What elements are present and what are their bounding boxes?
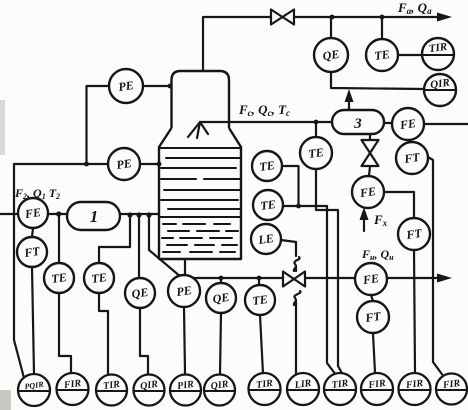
svg-text:Fc, Qc, Tc: Fc, Qc, Tc	[238, 102, 290, 118]
svg-text:TE: TE	[307, 145, 324, 161]
svg-text:TE: TE	[373, 47, 390, 63]
svg-text:TIR: TIR	[428, 41, 448, 55]
svg-text:PE: PE	[117, 78, 134, 94]
svg-text:QE: QE	[322, 47, 340, 63]
svg-text:Fa, Qa: Fa, Qa	[397, 0, 432, 16]
svg-text:FE: FE	[398, 116, 417, 132]
svg-text:LE: LE	[256, 231, 274, 247]
svg-text:FT: FT	[363, 309, 382, 325]
svg-text:FE: FE	[361, 271, 380, 287]
svg-text:PIR: PIR	[177, 379, 195, 392]
svg-text:TE: TE	[50, 270, 67, 286]
svg-text:TIR: TIR	[103, 379, 121, 392]
svg-text:PE: PE	[175, 283, 192, 299]
svg-text:QE: QE	[212, 290, 230, 306]
svg-text:3: 3	[353, 116, 362, 132]
svg-text:QE: QE	[131, 285, 149, 301]
svg-text:TE: TE	[258, 158, 275, 174]
svg-text:TIR: TIR	[256, 378, 274, 391]
svg-text:FT: FT	[404, 226, 423, 242]
svg-text:FT: FT	[402, 150, 421, 166]
svg-text:TE: TE	[251, 292, 268, 308]
svg-text:FT: FT	[22, 244, 41, 260]
svg-text:TE: TE	[90, 270, 107, 286]
svg-text:F2, Q1 T2: F2, Q1 T2	[14, 186, 60, 201]
svg-text:FE: FE	[358, 184, 377, 200]
svg-text:FE: FE	[23, 205, 42, 221]
svg-text:1: 1	[90, 207, 99, 226]
svg-text:PE: PE	[115, 156, 132, 172]
svg-text:TE: TE	[259, 197, 276, 213]
svg-text:TIR: TIR	[331, 378, 349, 391]
